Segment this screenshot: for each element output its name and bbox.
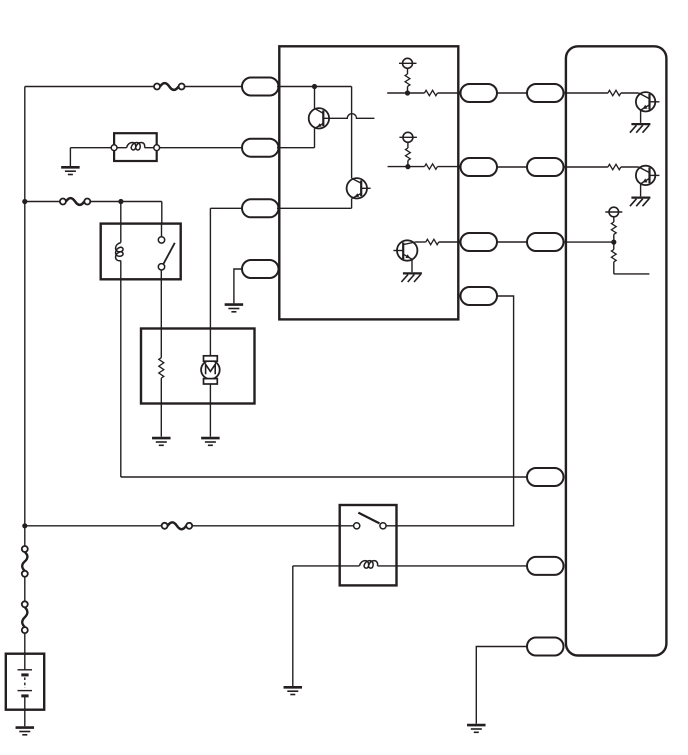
wire: K1 contact down to motor box <box>160 270 162 329</box>
fusible link FL1 <box>22 546 28 577</box>
node: divider junction <box>611 240 616 245</box>
fuse F2 <box>60 198 90 205</box>
wire: R6 to Q4 <box>621 93 650 99</box>
wire: Q5 emitter to ground <box>640 184 642 197</box>
wire: switch right to pin C4 line <box>386 525 396 527</box>
wire: link 1 to link 2 <box>24 577 26 602</box>
wire: bus to fuse 2 <box>25 201 60 203</box>
resistor R8 vertical <box>611 217 616 242</box>
inductor L1 coil <box>117 142 154 150</box>
relay K1 coil <box>116 202 124 280</box>
node: collector branch <box>312 84 317 89</box>
wire: D2 into unit <box>564 166 608 168</box>
wire: coil to pin B6 <box>378 565 528 567</box>
wire: battery negative to ground <box>24 696 26 726</box>
motor M1 <box>201 356 220 384</box>
wire: fuse 2 feed to K1 contact <box>161 202 163 237</box>
wire: C1 to D1 <box>497 92 527 94</box>
switch blade S4 <box>358 513 379 524</box>
wire: C2 to D2 <box>497 166 527 168</box>
fusible link FL2 <box>22 601 28 633</box>
connector pin C3 <box>461 233 498 251</box>
ground: Q5 chassis <box>630 198 651 207</box>
wire: C3 to D3 <box>497 241 527 243</box>
connector pin A4 <box>242 260 279 278</box>
wire: Q1 emitter to pin A2 <box>277 129 315 148</box>
connector pin D1 <box>527 84 564 102</box>
relay K2 coil <box>360 561 378 569</box>
wire: motor to ground <box>209 384 211 437</box>
contact: switch left terminal <box>354 523 360 529</box>
wire: bus to fuse 3 <box>25 525 162 527</box>
ground: below pin B7 <box>467 725 486 732</box>
wire: fuse 2 to relay K1 <box>90 201 162 203</box>
node: R1 junction <box>405 90 410 95</box>
connector pin A1 <box>242 78 279 96</box>
wire: R7 to Q5 <box>621 167 650 173</box>
wire: left vertical battery bus <box>24 87 26 526</box>
relay K1 box <box>101 224 181 280</box>
wire: D1 into unit <box>564 92 608 94</box>
wire: Q2 base stub <box>361 187 370 189</box>
ground: below motor <box>201 438 220 445</box>
relay K2 coil row wire left <box>293 565 360 567</box>
wire: link 2 to battery <box>24 633 26 670</box>
connector pin B5 <box>527 468 564 486</box>
contact: switch right terminal <box>380 523 386 529</box>
wire: K1 coil line to pin B5 <box>121 476 527 478</box>
wire: connector pin A3 to motor <box>210 208 243 356</box>
ground: battery earth <box>16 728 35 735</box>
wire: R4 to pin C2 <box>438 166 461 168</box>
ground: below switch coil <box>284 687 303 694</box>
resistor R3 vertical <box>406 142 411 166</box>
wire: pin C4 to main switch <box>397 296 514 526</box>
control unit box <box>279 46 458 319</box>
terminal: L1 left pin <box>111 145 117 151</box>
resistor R2 horizontal <box>425 90 438 95</box>
wire: Q3 collector to pin C3 <box>416 239 461 244</box>
transistor Q2 <box>347 178 367 199</box>
wire: coil left to ground <box>292 566 294 686</box>
wire: bus to fusible link 1 <box>24 526 26 546</box>
fuse F3 <box>162 522 193 529</box>
transistor Q5 <box>636 166 660 185</box>
node: bus junction at fuse 3 <box>22 523 27 528</box>
ground: Q4 chassis <box>630 124 651 133</box>
wire: pin A1 into box, collector feed <box>277 86 352 88</box>
wire: top feed from battery bus to fuse 1 <box>25 86 154 88</box>
battery box <box>6 654 44 710</box>
contact: K1 fixed terminal <box>158 237 164 243</box>
connector pin C1 <box>461 84 498 102</box>
connector pin C4 <box>461 287 498 305</box>
wire: Q3 emitter to ground <box>411 259 413 272</box>
sensor lamp S2 <box>399 132 417 142</box>
wire: Q1 base with crossover to internal node <box>323 114 374 119</box>
connector pin B7 <box>527 638 564 656</box>
wire: Q2 emitter to pin A3 <box>277 199 352 209</box>
transistor Q3 <box>393 240 417 260</box>
wire: node row 2 <box>388 166 425 168</box>
wire: L1 to connector pin A2 <box>160 147 243 149</box>
wire: pin B7 to ground <box>476 647 528 724</box>
wire: fuse 3 to main switch <box>192 525 353 527</box>
ground: below diode box <box>61 148 80 175</box>
wire: divider output stub <box>614 273 650 275</box>
wire: fuse 1 to connector pin A1 <box>185 86 243 88</box>
ground: Q3 emitter chassis <box>401 273 422 282</box>
connector pin A3 <box>242 199 279 217</box>
resistor R4 horizontal <box>425 164 438 169</box>
wire: branch down to Q2 collector <box>352 87 362 184</box>
connector pin D3 <box>527 233 564 251</box>
wire: R2 to pin C1 <box>438 92 461 94</box>
ground: below pin A4 <box>225 305 244 312</box>
node: bus junction at fuse 2 <box>22 199 27 204</box>
wire: ground stub to solenoid box <box>70 147 111 149</box>
resistor R5 in motor box <box>159 329 164 437</box>
wire: Q4 emitter to ground <box>640 110 642 123</box>
battery BAT cells <box>18 670 33 696</box>
wire: node row 1 <box>387 92 424 94</box>
wire: pin A4 ground stub <box>234 269 242 303</box>
resistor R6 <box>608 90 621 95</box>
resistor R1 vertical <box>405 68 410 93</box>
main switch box <box>340 505 397 585</box>
connector pin D2 <box>527 158 564 176</box>
contact: K1 moving terminal <box>158 264 164 270</box>
sensor lamp S3 <box>605 207 622 217</box>
transistor Q4 <box>636 92 660 111</box>
resistor R7 <box>608 164 621 169</box>
connector pin C2 <box>461 158 498 176</box>
wire: branch down to Q1 collector <box>315 87 324 114</box>
connector pin B6 <box>527 557 564 575</box>
motor box <box>141 329 255 404</box>
resistor R9 vertical <box>611 242 616 274</box>
wire: D3 into unit divider <box>564 241 614 243</box>
connector pin A2 <box>242 139 279 157</box>
node: R3 junction <box>405 164 410 169</box>
solenoid box L1 <box>114 133 157 161</box>
transistor Q1 <box>309 108 329 128</box>
fuse F1 <box>154 83 185 90</box>
sensor lamp S1 <box>399 58 417 68</box>
switch blade K1 <box>163 243 175 264</box>
ground: below resistor R5 <box>152 438 171 445</box>
node: junction to relay coil <box>118 199 123 204</box>
terminal: L1 right pin <box>154 145 160 151</box>
wire: K1 coil down to connector pin B5 <box>120 279 122 477</box>
amplifier unit box (rounded) <box>566 46 667 655</box>
